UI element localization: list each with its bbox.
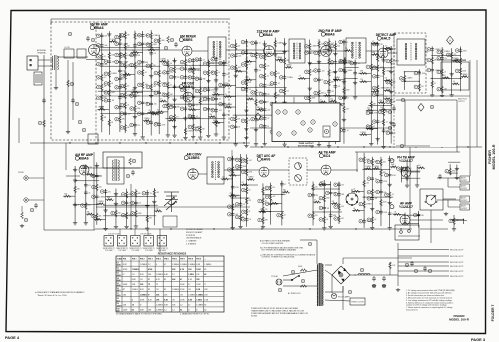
part callout [154, 39, 158, 43]
part callout [258, 218, 262, 222]
junction [109, 91, 110, 92]
resistor [209, 116, 216, 119]
junction [338, 188, 339, 189]
part callout [241, 81, 245, 85]
part callout [308, 242, 312, 246]
part callout [437, 50, 441, 54]
ground [191, 86, 195, 90]
resistor [100, 84, 103, 91]
svg-text:47: 47 [284, 184, 286, 186]
svg-text:33K: 33K [219, 59, 223, 61]
resistor [166, 82, 169, 89]
AM oscillator coil box [107, 157, 124, 184]
wire [224, 106, 236, 108]
capacitor [191, 75, 195, 80]
svg-text:.01: .01 [394, 212, 396, 214]
ground [328, 225, 332, 229]
svg-text:8.2K: 8.2K [204, 299, 209, 301]
ground [389, 121, 393, 125]
svg-text:.005: .005 [155, 208, 158, 210]
socket pin [132, 243, 133, 244]
svg-text:.005: .005 [380, 107, 383, 109]
junction [324, 211, 325, 212]
wire [331, 203, 337, 205]
table column rule [194, 256, 196, 312]
svg-text:.005: .005 [367, 108, 370, 110]
ground [333, 52, 337, 56]
wire [153, 188, 155, 225]
resistor [263, 54, 266, 61]
capacitor [191, 102, 195, 107]
resistor [390, 58, 393, 65]
svg-text:470K: 470K [326, 198, 331, 200]
svg-text:100K: 100K [462, 70, 467, 72]
wire [452, 60, 458, 62]
svg-text:220: 220 [238, 45, 241, 47]
part callout [376, 190, 380, 194]
wire [224, 96, 236, 98]
part callout [414, 71, 418, 75]
junction [154, 205, 155, 206]
resistor [173, 114, 176, 121]
wire [207, 59, 209, 133]
part callout [121, 213, 125, 217]
switch contact [408, 230, 411, 233]
part callout [146, 121, 150, 125]
svg-text:V10: V10 [117, 308, 120, 310]
resistor [230, 195, 237, 198]
part callout [372, 93, 376, 97]
wire [269, 183, 271, 225]
svg-text:6.8: 6.8 [286, 90, 288, 92]
resistor [391, 166, 398, 169]
svg-text:2.2MEG: 2.2MEG [407, 78, 414, 80]
svg-text:2.2MEG: 2.2MEG [144, 118, 151, 120]
resistor [371, 217, 374, 224]
capacitor [327, 89, 331, 94]
shield partition dashed wire [95, 22, 97, 140]
wire to output terminal [398, 255, 449, 257]
part callout [180, 67, 184, 71]
capacitor [131, 170, 135, 175]
wire [28, 177, 44, 179]
part callout [203, 71, 207, 75]
part callout [437, 56, 441, 60]
wire [86, 59, 105, 61]
svg-text:MULT PLUG: MULT PLUG [458, 99, 468, 101]
svg-text:47: 47 [87, 172, 89, 174]
junction [96, 204, 97, 205]
table row rule [116, 275, 224, 277]
capacitor [149, 120, 153, 125]
svg-text:6BA6: 6BA6 [94, 26, 103, 30]
ground [262, 142, 266, 146]
svg-text:4.7K: 4.7K [156, 279, 161, 281]
wire [371, 43, 377, 45]
junction [223, 87, 224, 88]
part callout [414, 269, 418, 273]
resistor [336, 104, 343, 107]
ground [308, 61, 312, 65]
wire [86, 173, 92, 175]
svg-text:270: 270 [380, 121, 383, 123]
resistor [245, 157, 248, 164]
part callout [241, 63, 245, 67]
resistor [323, 216, 326, 223]
part callout [455, 59, 459, 63]
part callout [334, 217, 338, 221]
wire [234, 70, 246, 72]
resistor [160, 60, 167, 63]
svg-text:2.2MEG: 2.2MEG [98, 201, 105, 203]
svg-text:FUSE: FUSE [298, 266, 302, 268]
table row rule [116, 286, 224, 288]
junction [383, 105, 384, 106]
svg-text:.02: .02 [225, 94, 227, 96]
ground [449, 72, 453, 76]
svg-text:TOP VIEW: TOP VIEW [105, 250, 113, 252]
wire [384, 47, 390, 49]
part callout [376, 160, 380, 164]
capacitor [379, 209, 383, 214]
stage label detector AVC [257, 154, 276, 161]
ground [114, 192, 118, 196]
svg-text:1.5MEG: 1.5MEG [140, 294, 147, 296]
svg-text:6.8K: 6.8K [164, 274, 169, 276]
part callout [97, 62, 101, 66]
wire [293, 97, 295, 103]
resistor [274, 40, 277, 47]
socket pin [145, 243, 146, 244]
svg-text:.02: .02 [243, 204, 245, 206]
svg-text:100K: 100K [153, 44, 158, 46]
resistor [312, 184, 315, 191]
wire [188, 117, 200, 119]
ground [388, 201, 392, 205]
svg-text:270: 270 [108, 191, 111, 193]
ground [183, 136, 187, 140]
part callout [270, 130, 274, 134]
svg-text:68K: 68K [265, 219, 269, 221]
part callout [259, 84, 263, 88]
svg-text:.02: .02 [196, 116, 198, 118]
resistor [328, 79, 331, 86]
junction [467, 146, 468, 147]
capacitor [234, 53, 238, 58]
junction [200, 65, 201, 66]
part callout [334, 183, 338, 187]
part callout [386, 100, 390, 104]
resistor [167, 36, 170, 43]
part callout [126, 174, 130, 178]
part callout [427, 48, 431, 52]
FM antenna coil box L2 [77, 49, 86, 58]
part callout [146, 85, 150, 89]
part callout [348, 290, 352, 294]
wire [147, 229, 149, 235]
svg-text:V6: V6 [117, 288, 119, 290]
svg-text:2.2: 2.2 [180, 305, 183, 307]
ground [214, 132, 218, 136]
svg-text:2.2MEG: 2.2MEG [373, 166, 380, 168]
FM antenna coil box L1 [64, 49, 74, 58]
table column rule [146, 256, 148, 312]
capacitor [370, 196, 374, 201]
svg-text:47: 47 [180, 278, 182, 281]
multiplug label [458, 99, 468, 103]
svg-text:6.8: 6.8 [338, 86, 340, 88]
svg-text:6.8: 6.8 [226, 63, 228, 65]
resistor [98, 108, 105, 111]
svg-text:TERM STRIP (T): TERM STRIP (T) [156, 248, 169, 250]
svg-text:47: 47 [373, 126, 375, 128]
part callout [372, 75, 376, 79]
svg-text:.02: .02 [187, 89, 189, 91]
wire [364, 168, 370, 170]
socket pin [119, 243, 120, 244]
capacitor [334, 60, 338, 65]
svg-text:6BA6: 6BA6 [263, 33, 272, 37]
rotary switch [425, 195, 437, 206]
test point diamond [255, 113, 261, 121]
wire [390, 46, 392, 143]
svg-text:.01: .01 [353, 189, 355, 191]
output terminal text 4 [461, 205, 467, 210]
part callout [259, 100, 263, 104]
resistor [132, 51, 139, 54]
capacitor [222, 60, 226, 65]
part callout [120, 54, 124, 58]
socket pin [145, 237, 146, 238]
wire [150, 30, 152, 135]
capacitor [149, 101, 153, 106]
socket caption [103, 248, 116, 252]
svg-text:1.5MEG: 1.5MEG [286, 65, 293, 67]
wire [319, 122, 325, 124]
wire [72, 62, 74, 120]
part callout [334, 192, 338, 196]
wire [390, 166, 396, 168]
svg-text:470K: 470K [235, 187, 240, 189]
part callout [251, 91, 255, 95]
junction [255, 115, 256, 116]
part callout [188, 76, 192, 80]
resistor [318, 41, 321, 48]
capacitor [245, 50, 249, 55]
wire [344, 57, 346, 95]
capacitor [329, 190, 333, 195]
svg-text:1.2K: 1.2K [392, 265, 396, 267]
ground [214, 87, 218, 91]
wire [75, 180, 99, 182]
svg-text:OO: OO [156, 289, 159, 291]
wire [86, 213, 92, 215]
svg-text:V5: V5 [117, 283, 119, 285]
capacitor [173, 74, 177, 79]
svg-text:RECORD OUTP: RECORD OUTP [450, 266, 464, 268]
wire [456, 165, 458, 176]
antenna bus wire down [43, 55, 45, 150]
capacitor [430, 67, 434, 72]
junction [419, 81, 420, 82]
wire [143, 120, 149, 122]
resistor [280, 212, 283, 219]
resistor [87, 213, 94, 216]
ground [353, 81, 357, 85]
junction [401, 171, 402, 172]
wire to output terminal [398, 270, 449, 272]
part callout [75, 102, 79, 106]
part callout [203, 88, 207, 92]
wire [401, 177, 420, 179]
tube layout caption [298, 142, 315, 147]
capacitor [342, 67, 346, 72]
junction [147, 215, 148, 216]
part callout [235, 202, 239, 206]
junction [391, 67, 392, 68]
svg-text:2.2MEG: 2.2MEG [195, 70, 202, 72]
svg-text:33K: 33K [137, 55, 141, 57]
part callout [131, 201, 135, 205]
antenna terminal strip [27, 56, 38, 70]
wire [208, 116, 214, 118]
ground [254, 142, 258, 146]
svg-text:100K: 100K [180, 284, 185, 286]
wire [250, 95, 340, 97]
table footnote [116, 313, 163, 316]
part callout [170, 38, 174, 42]
resistor [245, 118, 248, 125]
svg-text:6.8: 6.8 [385, 78, 387, 80]
wire [371, 157, 373, 226]
capacitor [34, 203, 38, 208]
wire [134, 31, 136, 132]
resistor [453, 60, 460, 63]
resistor [320, 121, 327, 124]
junction [262, 194, 263, 195]
svg-text:.01: .01 [189, 66, 191, 68]
resistor [338, 204, 341, 211]
capacitor [263, 107, 267, 112]
resistor [207, 70, 210, 77]
svg-text:82: 82 [204, 269, 206, 271]
svg-text:.005: .005 [238, 55, 241, 57]
part callout [131, 212, 135, 216]
junction [309, 63, 310, 64]
junction [337, 146, 338, 147]
ground [343, 95, 347, 99]
voltage measurement notes [406, 289, 455, 312]
resistor [87, 173, 94, 176]
wire [307, 103, 345, 105]
junction [246, 115, 247, 116]
part callout [30, 208, 34, 212]
wire [156, 111, 168, 113]
resistor [371, 159, 374, 166]
part callout [241, 188, 245, 192]
svg-text:8.2K: 8.2K [148, 299, 153, 301]
margin title FISHER MODEL 100-R [488, 144, 496, 169]
svg-text:1K: 1K [248, 120, 251, 122]
table column rule [178, 256, 180, 312]
part callout [366, 125, 370, 129]
svg-text:68K: 68K [341, 194, 345, 196]
resistor [450, 52, 453, 59]
junction [147, 196, 148, 197]
capacitor [388, 172, 392, 177]
capacitor [273, 81, 277, 86]
wire [165, 103, 224, 105]
wire [388, 52, 397, 54]
capacitor [376, 92, 380, 97]
resistor [269, 194, 272, 201]
part callout [115, 117, 119, 121]
capacitor [231, 156, 235, 161]
wire [319, 183, 331, 185]
wire [409, 147, 411, 229]
svg-text:82: 82 [148, 279, 150, 281]
wire [73, 203, 99, 205]
svg-text:.047: .047 [444, 89, 447, 91]
part callout [120, 33, 124, 37]
svg-text:1W: 1W [331, 91, 334, 93]
wire [192, 50, 208, 52]
resistor [158, 38, 161, 45]
svg-text:PAGE 4: PAGE 4 [5, 335, 20, 340]
resistor [334, 116, 337, 123]
part callout [70, 82, 74, 86]
part callout [195, 127, 199, 131]
resistor [158, 70, 161, 77]
junction [364, 197, 365, 198]
wire [224, 85, 236, 87]
resistor [382, 68, 385, 75]
socket pin [106, 237, 107, 238]
resistor [338, 215, 341, 222]
wire [250, 127, 272, 129]
wire [28, 199, 44, 201]
svg-text:47: 47 [314, 199, 316, 201]
wire [65, 143, 67, 170]
wire [57, 56, 88, 58]
capacitor [353, 70, 357, 75]
svg-text:.01: .01 [353, 208, 355, 210]
wire [283, 285, 317, 287]
part callout [400, 144, 404, 148]
junction [125, 66, 126, 67]
capacitor [410, 261, 414, 266]
ground [206, 79, 210, 83]
capacitor [389, 130, 393, 135]
svg-text:220: 220 [315, 215, 318, 217]
svg-text:1.2MEG: 1.2MEG [140, 264, 147, 266]
wire [50, 19, 52, 24]
svg-text:PIN 7: PIN 7 [180, 258, 185, 260]
wire [151, 113, 157, 115]
wire [270, 202, 282, 204]
phono input jack J1 [24, 176, 28, 180]
part callout [314, 132, 318, 136]
stage label FM mixer [179, 35, 196, 42]
resistor [124, 62, 127, 69]
junction [355, 228, 356, 229]
wire [406, 162, 408, 183]
resistor [225, 95, 232, 98]
resistor [108, 80, 111, 87]
wire [380, 157, 382, 226]
part callout [396, 167, 400, 171]
resistor [380, 170, 383, 177]
